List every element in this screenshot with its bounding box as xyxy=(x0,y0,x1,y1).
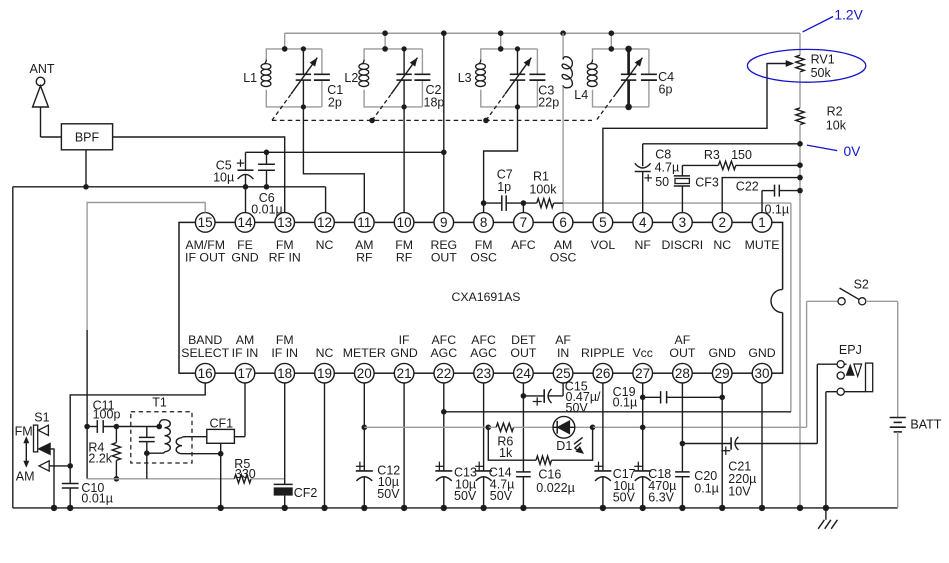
svg-text:AF: AF xyxy=(555,333,571,347)
svg-text:10µ: 10µ xyxy=(213,171,234,185)
svg-text:10k: 10k xyxy=(826,118,847,132)
svg-text:50V: 50V xyxy=(566,401,589,415)
svg-text:CF2: CF2 xyxy=(294,486,318,500)
svg-text:RF IN: RF IN xyxy=(269,250,301,264)
svg-text:18p: 18p xyxy=(424,95,445,109)
svg-text:50V: 50V xyxy=(454,489,477,503)
svg-text:100k: 100k xyxy=(529,183,557,197)
svg-text:C22: C22 xyxy=(736,180,759,194)
svg-text:26: 26 xyxy=(595,366,610,381)
svg-text:19: 19 xyxy=(317,366,332,381)
svg-text:OUT: OUT xyxy=(431,250,457,264)
svg-text:11: 11 xyxy=(357,215,371,230)
svg-text:L2: L2 xyxy=(344,71,358,85)
svg-text:22p: 22p xyxy=(538,95,559,109)
svg-text:1: 1 xyxy=(758,215,766,230)
svg-text:METER: METER xyxy=(343,346,386,360)
svg-text:21: 21 xyxy=(397,366,412,381)
svg-text:GND: GND xyxy=(709,346,736,360)
svg-text:12: 12 xyxy=(317,215,332,230)
svg-text:S2: S2 xyxy=(854,278,869,292)
svg-text:SELECT: SELECT xyxy=(181,346,229,360)
svg-text:DISCRI: DISCRI xyxy=(662,238,704,252)
svg-text:L3: L3 xyxy=(458,71,472,85)
svg-text:17: 17 xyxy=(237,366,252,381)
svg-text:OSC: OSC xyxy=(470,250,497,264)
svg-text:BPF: BPF xyxy=(75,130,100,144)
svg-text:CF1: CF1 xyxy=(210,416,234,430)
svg-text:50V: 50V xyxy=(613,491,636,505)
svg-text:D1: D1 xyxy=(556,439,572,453)
svg-text:330: 330 xyxy=(235,467,256,481)
svg-text:L4: L4 xyxy=(574,88,588,102)
svg-text:BATT: BATT xyxy=(910,418,941,432)
svg-text:6p: 6p xyxy=(659,83,673,97)
svg-text:GND: GND xyxy=(231,250,258,264)
svg-text:RV1: RV1 xyxy=(811,52,835,66)
svg-text:15: 15 xyxy=(198,215,213,230)
svg-text:OUT: OUT xyxy=(510,346,536,360)
svg-text:14: 14 xyxy=(237,215,253,230)
svg-text:BAND: BAND xyxy=(188,333,222,347)
svg-text:0.1µ: 0.1µ xyxy=(613,396,638,410)
svg-text:1p: 1p xyxy=(497,180,511,194)
svg-text:0V: 0V xyxy=(844,144,862,159)
svg-text:EPJ: EPJ xyxy=(839,343,862,357)
svg-text:IF: IF xyxy=(399,333,410,347)
svg-text:24: 24 xyxy=(516,366,532,381)
svg-text:AFC: AFC xyxy=(431,333,456,347)
svg-text:RIPPLE: RIPPLE xyxy=(581,346,625,360)
svg-text:4.7µ: 4.7µ xyxy=(655,161,680,175)
svg-text:RF: RF xyxy=(356,250,373,264)
svg-text:10: 10 xyxy=(397,215,412,230)
svg-text:AFC: AFC xyxy=(511,238,536,252)
svg-text:GND: GND xyxy=(748,346,775,360)
svg-text:IN: IN xyxy=(557,346,569,360)
svg-text:GND: GND xyxy=(390,346,417,360)
svg-text:AM: AM xyxy=(236,333,254,347)
svg-text:50: 50 xyxy=(655,175,669,189)
svg-text:VOL: VOL xyxy=(591,238,616,252)
svg-text:50V: 50V xyxy=(377,487,400,501)
svg-text:C8: C8 xyxy=(655,147,671,161)
svg-text:18: 18 xyxy=(277,366,292,381)
svg-text:OSC: OSC xyxy=(550,250,577,264)
svg-text:30: 30 xyxy=(754,366,769,381)
svg-text:6.3V: 6.3V xyxy=(648,491,674,505)
svg-text:0.01µ: 0.01µ xyxy=(81,492,113,506)
svg-text:100p: 100p xyxy=(93,407,121,421)
svg-text:NF: NF xyxy=(634,238,651,252)
svg-text:AF: AF xyxy=(675,333,691,347)
svg-text:L1: L1 xyxy=(243,71,257,85)
svg-text:FM: FM xyxy=(276,333,294,347)
svg-text:FM: FM xyxy=(15,425,33,439)
svg-text:23: 23 xyxy=(476,366,491,381)
svg-text:R2: R2 xyxy=(827,105,843,119)
svg-text:NC: NC xyxy=(316,238,334,252)
svg-text:6: 6 xyxy=(559,215,567,230)
svg-text:9: 9 xyxy=(440,215,448,230)
svg-text:R3: R3 xyxy=(704,148,720,162)
svg-text:20: 20 xyxy=(357,366,372,381)
svg-text:NC: NC xyxy=(316,346,334,360)
svg-text:1k: 1k xyxy=(499,446,513,460)
svg-text:29: 29 xyxy=(715,366,730,381)
svg-text:R1: R1 xyxy=(533,169,549,183)
svg-text:5: 5 xyxy=(599,215,607,230)
svg-text:2.2k: 2.2k xyxy=(88,452,112,466)
svg-text:16: 16 xyxy=(198,366,213,381)
svg-text:MUTE: MUTE xyxy=(745,238,780,252)
svg-text:IF IN: IF IN xyxy=(271,346,298,360)
svg-text:IF IN: IF IN xyxy=(232,346,259,360)
svg-text:Vcc: Vcc xyxy=(632,346,653,360)
svg-text:22: 22 xyxy=(436,366,451,381)
svg-text:8: 8 xyxy=(480,215,488,230)
svg-text:AGC: AGC xyxy=(470,346,497,360)
svg-text:10V: 10V xyxy=(728,484,751,498)
svg-text:OUT: OUT xyxy=(669,346,695,360)
svg-text:1.2V: 1.2V xyxy=(834,7,863,22)
svg-text:DET: DET xyxy=(511,333,536,347)
svg-text:7: 7 xyxy=(520,215,528,230)
svg-text:50k: 50k xyxy=(811,66,832,80)
svg-text:13: 13 xyxy=(277,215,292,230)
svg-text:150: 150 xyxy=(731,148,752,162)
svg-text:2p: 2p xyxy=(328,95,342,109)
svg-text:2: 2 xyxy=(718,215,726,230)
svg-text:3: 3 xyxy=(679,215,687,230)
svg-text:NC: NC xyxy=(713,238,731,252)
svg-text:0.1µ: 0.1µ xyxy=(694,482,719,496)
svg-text:0.022µ: 0.022µ xyxy=(536,481,574,495)
svg-text:CF3: CF3 xyxy=(695,175,719,189)
svg-text:28: 28 xyxy=(675,366,690,381)
svg-text:4: 4 xyxy=(639,215,647,230)
svg-text:T1: T1 xyxy=(152,396,167,410)
svg-text:ANT: ANT xyxy=(30,62,55,76)
svg-text:IF OUT: IF OUT xyxy=(185,250,226,264)
svg-text:50V: 50V xyxy=(490,489,513,503)
svg-text:AFC: AFC xyxy=(471,333,496,347)
svg-text:AM: AM xyxy=(16,469,35,483)
svg-text:AGC: AGC xyxy=(430,346,457,360)
svg-text:S1: S1 xyxy=(34,410,49,424)
svg-text:CXA1691AS: CXA1691AS xyxy=(451,290,520,304)
svg-text:RF: RF xyxy=(396,250,413,264)
svg-text:C16: C16 xyxy=(538,468,561,482)
svg-text:27: 27 xyxy=(635,366,650,381)
